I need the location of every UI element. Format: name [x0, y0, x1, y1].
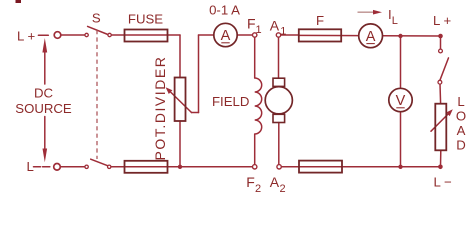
svg-text:1: 1 [256, 24, 262, 36]
svg-text:L +: L + [433, 13, 452, 28]
svg-text:F: F [246, 174, 255, 190]
svg-text:FUSE: FUSE [128, 12, 163, 27]
svg-text:S: S [92, 11, 101, 26]
svg-text:1: 1 [280, 26, 286, 38]
svg-text:POT.DIVIDER: POT.DIVIDER [152, 56, 168, 161]
svg-text:A: A [221, 28, 231, 44]
svg-text:D: D [456, 138, 466, 153]
svg-text:A: A [366, 29, 376, 45]
svg-text:L −: L − [434, 175, 453, 190]
svg-text:F: F [247, 16, 256, 32]
svg-text:L: L [27, 159, 34, 174]
svg-text:O: O [456, 109, 466, 124]
svg-text:2: 2 [255, 183, 261, 195]
svg-text:FIELD: FIELD [212, 94, 249, 109]
svg-text:0-1 A: 0-1 A [209, 3, 240, 18]
svg-text:SOURCE: SOURCE [15, 101, 72, 116]
svg-text:A: A [457, 123, 466, 138]
svg-text:DC: DC [34, 86, 54, 101]
svg-text:L: L [392, 15, 398, 27]
svg-text:A: A [270, 17, 280, 33]
svg-text:A: A [270, 174, 280, 190]
svg-text:V: V [396, 93, 406, 109]
svg-text:L +: L + [17, 29, 36, 44]
svg-text:F: F [316, 13, 324, 28]
svg-text:2: 2 [280, 183, 286, 195]
svg-text:L: L [457, 94, 464, 109]
